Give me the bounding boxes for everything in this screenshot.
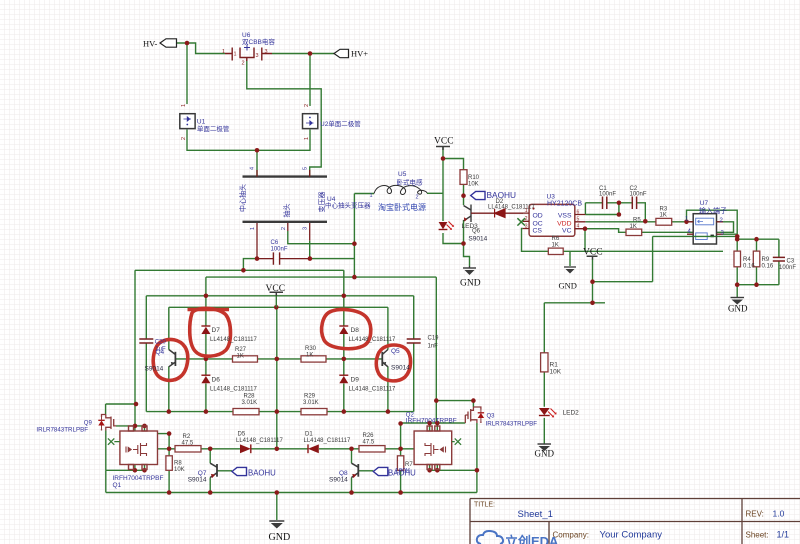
wire U3 CS loop to R6 bbox=[522, 229, 549, 252]
svg-text:Your Company: Your Company bbox=[600, 530, 663, 541]
wire VCC down to LED3 bbox=[442, 147, 444, 222]
LED LED2 bbox=[539, 408, 557, 417]
node C6 left bbox=[255, 256, 260, 261]
node Q3 bottom junction bbox=[475, 468, 480, 473]
pin numbers U3 bbox=[525, 208, 580, 230]
svg-text:立创EDA: 立创EDA bbox=[505, 534, 559, 544]
wire GND tap middle bbox=[569, 251, 571, 266]
resistor R5 bbox=[626, 229, 642, 235]
wire transformer pin1 stub maroon bbox=[256, 222, 258, 259]
wire transformer pin1 to rail1 bbox=[243, 259, 257, 271]
svg-text:R6: R6 bbox=[552, 236, 560, 242]
diode D2 bbox=[495, 209, 505, 218]
svg-text:GND: GND bbox=[535, 449, 555, 459]
svg-text:3.01K: 3.01K bbox=[242, 400, 258, 406]
node R2 left junction bbox=[167, 447, 172, 452]
svg-text:OD: OD bbox=[533, 213, 543, 220]
svg-text:D9: D9 bbox=[351, 377, 360, 384]
svg-text:LL4148_C181117: LL4148_C181117 bbox=[349, 337, 396, 343]
wire Q3 pins bbox=[473, 401, 477, 471]
svg-text:3.01K: 3.01K bbox=[303, 400, 319, 406]
ground GND5 bbox=[269, 521, 284, 529]
wire R4 R9 C3 bottoms bbox=[737, 261, 779, 297]
diode D5 bbox=[240, 444, 251, 453]
svg-text:S9014: S9014 bbox=[329, 476, 348, 483]
node R26 right junction bbox=[398, 447, 403, 452]
node VC junction bbox=[583, 226, 588, 231]
svg-text:GND: GND bbox=[460, 279, 481, 289]
wire transformer pin3 row right bbox=[310, 241, 355, 259]
wire right bridge column down bbox=[435, 277, 437, 423]
LED LED3 bbox=[439, 222, 454, 230]
capacitor C3 bbox=[773, 257, 785, 261]
svg-text:VSS: VSS bbox=[558, 213, 572, 220]
node Q2 bottom pin a bbox=[427, 468, 432, 473]
svg-text:R1: R1 bbox=[550, 362, 559, 369]
wire R6 row long bbox=[563, 250, 723, 252]
wire C20 column bbox=[145, 296, 147, 412]
wire transformer pin2 stub maroon bbox=[287, 222, 289, 231]
svg-text:5: 5 bbox=[303, 167, 309, 170]
wire R27 R30 row bbox=[175, 358, 382, 360]
svg-text:1: 1 bbox=[181, 104, 187, 107]
node center tap corner bbox=[352, 241, 357, 246]
svg-text:HV+: HV+ bbox=[351, 49, 368, 59]
ground GND4 bbox=[538, 444, 552, 451]
svg-text:Q5: Q5 bbox=[391, 348, 400, 355]
svg-text:VCC: VCC bbox=[266, 284, 286, 294]
ground GND2 bbox=[564, 267, 576, 274]
svg-text:R4: R4 bbox=[743, 257, 751, 263]
node R9 top bbox=[754, 237, 759, 242]
node railB D9 col bbox=[342, 409, 347, 414]
node Q2 gate pin a bbox=[427, 421, 432, 426]
svg-text:IRLR7843TRLPBF: IRLR7843TRLPBF bbox=[486, 421, 538, 428]
svg-text:BAOHU: BAOHU bbox=[248, 468, 276, 477]
wire emitter junction to GND bbox=[464, 244, 470, 267]
net flag BAOHU2 bbox=[232, 467, 247, 475]
net symbol VCC2 bbox=[587, 256, 598, 259]
node U7 pin3 junction a bbox=[735, 234, 740, 239]
node VCC2 junction lower bbox=[590, 301, 595, 306]
wire bridge rail4 bbox=[146, 295, 413, 297]
node R9 bottom bbox=[754, 282, 759, 287]
svg-text:TITLE:: TITLE: bbox=[474, 502, 495, 509]
ground GND3 bbox=[731, 298, 745, 305]
svg-text:R5: R5 bbox=[633, 218, 641, 224]
resistor R4 bbox=[734, 251, 741, 267]
node railC left bbox=[434, 398, 439, 403]
node bottom rail R7 bbox=[398, 490, 403, 495]
svg-text:R8: R8 bbox=[174, 461, 182, 467]
pin numbers U7 bbox=[685, 217, 725, 237]
wire Q7 base bbox=[217, 470, 232, 472]
resistor R30 bbox=[301, 356, 326, 362]
resistor R27 bbox=[233, 356, 258, 362]
node R7 col top bbox=[398, 421, 403, 426]
svg-text:10K: 10K bbox=[468, 182, 479, 188]
svg-text:3: 3 bbox=[525, 223, 528, 229]
svg-text:LL4148_C181117: LL4148_C181117 bbox=[210, 387, 257, 393]
resistor R7 bbox=[397, 456, 403, 471]
logo cloud bbox=[477, 531, 503, 544]
node bottom rail Q8 bbox=[349, 490, 354, 495]
annotation stroke D7 top bbox=[188, 308, 230, 312]
wire transformer pin2 center tap bbox=[288, 231, 355, 244]
wire R1 row bbox=[544, 303, 605, 444]
node railB D6 col bbox=[204, 409, 209, 414]
wire center column bbox=[276, 307, 278, 449]
wire U7 pin3 to junction bbox=[723, 233, 737, 235]
capacitor C1 bbox=[603, 197, 607, 210]
wire inductor column bbox=[354, 194, 374, 278]
svg-text:U3: U3 bbox=[547, 194, 556, 201]
svg-text:R30: R30 bbox=[305, 346, 317, 352]
node rail5 VCC stem bbox=[274, 305, 279, 310]
diode D6 bbox=[201, 375, 210, 383]
wire bridge rail2 bbox=[206, 276, 436, 278]
node bottom diode wire junction bbox=[255, 148, 260, 153]
node Q1 bottom pin a bbox=[133, 468, 138, 473]
node C6 right bbox=[308, 256, 313, 261]
svg-text:R27: R27 bbox=[235, 347, 247, 353]
annotation circle D8 bbox=[322, 309, 371, 348]
svg-text:2: 2 bbox=[304, 104, 310, 107]
wire LED3 bottom to emitter junction bbox=[443, 220, 464, 244]
svg-text:U7: U7 bbox=[700, 200, 709, 207]
wire crossing U7 box bbox=[693, 235, 716, 237]
wire U6 pin2 down to transformer pin5 bbox=[247, 60, 321, 177]
svg-text:C19: C19 bbox=[428, 336, 440, 342]
svg-text:47.5: 47.5 bbox=[182, 440, 194, 446]
resistor R6 bbox=[548, 248, 563, 254]
svg-text:6: 6 bbox=[577, 209, 580, 215]
resistor R1 bbox=[541, 353, 548, 372]
resistor R26 bbox=[359, 446, 385, 452]
net flag BAOHU3 bbox=[373, 467, 388, 475]
svg-text:D1: D1 bbox=[305, 432, 313, 438]
diode D7 bbox=[201, 326, 210, 334]
svg-text:GND: GND bbox=[559, 281, 577, 291]
svg-text:1: 1 bbox=[304, 137, 310, 140]
transformer U4 bbox=[243, 170, 328, 222]
wire Q1 top pin stubs bbox=[135, 426, 145, 431]
node bottom rail Q7 bbox=[208, 490, 213, 495]
wire Q2 top pin stubs bbox=[430, 423, 438, 431]
node railB Q4 col bbox=[167, 409, 172, 414]
svg-text:S9014: S9014 bbox=[468, 236, 487, 243]
node Q1 right pin top bbox=[167, 431, 172, 436]
svg-text:R10: R10 bbox=[468, 175, 480, 181]
node VSS junction bbox=[617, 212, 622, 217]
svg-text:C6: C6 bbox=[271, 240, 279, 246]
wire U1 pin2 to U2 pin1 bottom bbox=[187, 129, 310, 150]
node Q8 collector junction bbox=[349, 447, 354, 452]
svg-text:1: 1 bbox=[525, 208, 528, 214]
mosfet module Q1 bbox=[120, 426, 158, 470]
transistor Q6 bbox=[464, 205, 476, 223]
svg-text:2: 2 bbox=[525, 216, 528, 222]
wire GND stem bottom bbox=[276, 493, 278, 521]
mosfet Q9 bbox=[98, 415, 116, 431]
port HV- bbox=[160, 39, 177, 47]
annotation circle D7 bbox=[190, 308, 231, 356]
svg-text:R29: R29 bbox=[304, 393, 316, 399]
diode D1 bbox=[308, 444, 319, 453]
node HV+ junction bbox=[308, 51, 313, 56]
svg-text:2: 2 bbox=[281, 227, 287, 230]
svg-text:HV-: HV- bbox=[143, 39, 157, 49]
transistor Q8 bbox=[352, 463, 359, 478]
wire Q4 collector emitter column bbox=[168, 307, 170, 411]
pin names U3 bbox=[533, 213, 572, 235]
svg-text:C3: C3 bbox=[787, 259, 795, 265]
svg-text:VCC: VCC bbox=[434, 137, 454, 147]
wire HV- to junction bbox=[176, 43, 225, 104]
svg-text:LL4148_C181117: LL4148_C181117 bbox=[210, 337, 257, 343]
svg-text:1K: 1K bbox=[237, 353, 244, 359]
svg-text:VC: VC bbox=[562, 228, 572, 235]
svg-text:Q3: Q3 bbox=[487, 414, 496, 420]
node R4 bottom bbox=[735, 282, 740, 287]
svg-text:U5: U5 bbox=[398, 171, 407, 178]
wire VC junction down to R6 row bbox=[584, 229, 586, 252]
node rail4 D8 col bbox=[342, 294, 347, 299]
node R27 R30 mid junction bbox=[275, 357, 280, 362]
wire VCC junction to R10 bbox=[443, 159, 464, 206]
wire Q1 bottom pins row bbox=[106, 465, 145, 493]
wire R28 R29 row bbox=[146, 411, 413, 413]
svg-text:10K: 10K bbox=[174, 467, 185, 473]
svg-text:单面二极管: 单面二极管 bbox=[197, 124, 230, 133]
svg-text:100nF: 100nF bbox=[779, 265, 796, 271]
svg-text:2: 2 bbox=[416, 195, 419, 201]
node rail2 inductor col bbox=[352, 275, 357, 280]
net symbol VCC1 bbox=[436, 147, 450, 151]
svg-text:R26: R26 bbox=[363, 433, 375, 439]
wire Q9 gate row bbox=[116, 425, 145, 427]
wire U3 VDD row to R3 to U7 pin1 bbox=[585, 221, 693, 223]
capacitor C2 bbox=[632, 197, 636, 210]
IC U3 bbox=[517, 204, 585, 236]
resistor R10 bbox=[460, 170, 467, 185]
node R30 right junction bbox=[342, 357, 347, 362]
svg-text:VCC: VCC bbox=[583, 248, 603, 258]
svg-text:Q6: Q6 bbox=[472, 229, 481, 235]
svg-text:100nF: 100nF bbox=[630, 191, 647, 197]
svg-text:R2: R2 bbox=[183, 434, 191, 440]
inductor U5 bbox=[374, 185, 427, 194]
node Q1 gate pin a bbox=[133, 424, 138, 429]
svg-text:D6: D6 bbox=[212, 377, 221, 384]
node bottom rail R8 bbox=[167, 490, 172, 495]
wire rail C right bbox=[436, 400, 473, 402]
capacitor C6 bbox=[273, 252, 279, 264]
wire inductor pin2 to VCC column bbox=[427, 192, 443, 194]
svg-text:输入端子: 输入端子 bbox=[699, 206, 727, 215]
wire Q7 collector emitter bbox=[209, 449, 211, 493]
resistor R3 bbox=[656, 218, 672, 225]
svg-text:5: 5 bbox=[577, 217, 580, 223]
svg-text:1.0: 1.0 bbox=[773, 509, 785, 519]
node Q2 gate pin b bbox=[435, 421, 440, 426]
svg-text:OC: OC bbox=[533, 220, 543, 227]
node U7 pin3 junction b bbox=[735, 237, 740, 242]
wire Q2 gate row bbox=[401, 422, 466, 424]
svg-text:1: 1 bbox=[250, 227, 256, 230]
svg-text:HY2120CB: HY2120CB bbox=[547, 201, 582, 208]
svg-text:D5: D5 bbox=[238, 432, 246, 438]
svg-text:Q1: Q1 bbox=[113, 482, 122, 489]
wire D7 D6 column bbox=[205, 277, 207, 412]
ground GND1 bbox=[463, 266, 476, 275]
diode D9 bbox=[339, 375, 348, 383]
wire R2 D5 D1 R26 row bbox=[169, 448, 414, 450]
svg-text:1nF: 1nF bbox=[428, 344, 439, 350]
net symbol VCC3 bbox=[270, 292, 284, 307]
svg-text:抽头: 抽头 bbox=[282, 204, 291, 218]
annotation circle Q5 bbox=[376, 345, 410, 381]
svg-text:CS: CS bbox=[533, 228, 543, 235]
node Q1 bottom pin b bbox=[142, 468, 147, 473]
resistor R28 bbox=[233, 409, 259, 415]
mosfet module Q2 bbox=[414, 426, 452, 470]
svg-text:0.16: 0.16 bbox=[762, 264, 774, 270]
wire U3 VC to R5 to U7 pin2 bbox=[585, 222, 734, 233]
node emitter junction bbox=[461, 241, 466, 246]
svg-text:LED2: LED2 bbox=[563, 410, 580, 417]
wire transformer pin3 stub maroon bbox=[309, 222, 311, 241]
svg-text:LL4148_C181117: LL4148_C181117 bbox=[349, 387, 396, 393]
no-connect X Q1 bbox=[108, 438, 120, 444]
connector U7 bbox=[687, 214, 723, 244]
svg-text:1K: 1K bbox=[552, 243, 559, 249]
wire bridge rail1 bbox=[135, 269, 344, 271]
svg-text:IRLR7843TRLPBF: IRLR7843TRLPBF bbox=[36, 427, 88, 434]
svg-text:R9: R9 bbox=[762, 257, 770, 263]
pin numbers U6 bbox=[222, 49, 268, 67]
svg-text:0.16: 0.16 bbox=[743, 264, 755, 270]
node railC Q3 top bbox=[471, 398, 476, 403]
diode module U2 bbox=[303, 114, 318, 129]
capacitor U6 bbox=[225, 45, 272, 62]
wire Q8 base bbox=[358, 470, 373, 472]
resistor R29 bbox=[301, 409, 327, 415]
annotation circle Q4 bbox=[153, 339, 187, 380]
svg-text:1K: 1K bbox=[630, 224, 637, 230]
wire C6 row bbox=[257, 258, 310, 260]
wire U3 VSS row bbox=[585, 203, 619, 215]
svg-text:双CBB电容: 双CBB电容 bbox=[242, 37, 275, 46]
no-connect X Q2 bbox=[452, 438, 461, 444]
svg-text:GND: GND bbox=[269, 532, 291, 543]
node Q2 bottom pin b bbox=[435, 468, 440, 473]
svg-text:卧式电感: 卧式电感 bbox=[397, 178, 424, 187]
svg-text:Q4: Q4 bbox=[156, 349, 165, 356]
wire U6 pin3 to HV+ bbox=[272, 54, 334, 107]
svg-text:中心抽头: 中心抽头 bbox=[238, 184, 247, 212]
svg-text:LL4148_C181117: LL4148_C181117 bbox=[304, 438, 351, 444]
svg-text:1: 1 bbox=[222, 49, 225, 55]
svg-text:4: 4 bbox=[577, 224, 580, 230]
svg-text:1K: 1K bbox=[660, 213, 667, 219]
wire Q8 collector emitter bbox=[351, 449, 353, 493]
wire Q6 base to D2 to U3 OD bbox=[475, 212, 524, 214]
wire C19 column bbox=[413, 296, 415, 412]
node R3 R5 junction bbox=[643, 219, 648, 224]
mosfet Q3 bbox=[465, 407, 484, 423]
svg-text:Sheet_1: Sheet_1 bbox=[518, 509, 553, 520]
transistor Q4 bbox=[169, 350, 176, 367]
svg-text:D7: D7 bbox=[212, 327, 221, 334]
svg-text:D8: D8 bbox=[351, 327, 360, 334]
svg-text:IRFH7004TRPBF: IRFH7004TRPBF bbox=[406, 418, 457, 425]
svg-text:S9014: S9014 bbox=[145, 366, 164, 373]
wire C1 C2 row bbox=[585, 203, 645, 222]
node Q7 collector junction bbox=[208, 447, 213, 452]
svg-text:S9014: S9014 bbox=[188, 476, 207, 483]
svg-text:4: 4 bbox=[250, 167, 256, 170]
wire Q5 column bbox=[387, 307, 389, 411]
node rail4 D7 col bbox=[204, 294, 209, 299]
svg-text:2: 2 bbox=[181, 137, 187, 140]
svg-text:LL4148_C181117: LL4148_C181117 bbox=[488, 205, 535, 211]
node VCC2 junction upper bbox=[590, 279, 595, 284]
diode module U1 bbox=[180, 114, 195, 129]
svg-text:10K: 10K bbox=[550, 369, 562, 376]
svg-text:47.5: 47.5 bbox=[363, 440, 375, 446]
node VCC1 junction bbox=[441, 156, 446, 161]
port HV+ bbox=[334, 49, 349, 57]
resistor R9 bbox=[753, 251, 760, 267]
node bottom rail GND bbox=[275, 490, 280, 495]
svg-text:LL4148_C181117: LL4148_C181117 bbox=[236, 438, 283, 444]
node rail1 tap bbox=[241, 268, 246, 273]
wire VCC2 junction right to U7 pin4 column bbox=[593, 236, 738, 281]
svg-text:3: 3 bbox=[256, 53, 259, 59]
diode D8 bbox=[339, 326, 348, 334]
svg-text:BAOHU: BAOHU bbox=[388, 468, 416, 477]
wire Q9 pins bbox=[105, 404, 107, 470]
svg-text:100nF: 100nF bbox=[599, 191, 616, 197]
wire rail A left bbox=[106, 403, 136, 405]
node railA gate col bbox=[134, 402, 139, 407]
node railB center col bbox=[275, 409, 280, 414]
svg-text:1K: 1K bbox=[306, 352, 313, 358]
svg-text:3: 3 bbox=[303, 227, 309, 230]
transistor Q7 bbox=[210, 463, 217, 478]
svg-text:3: 3 bbox=[265, 49, 268, 55]
wire Q2 bottom pins row bbox=[430, 465, 477, 493]
svg-text:U1: U1 bbox=[197, 119, 206, 126]
capacitor C20 bbox=[139, 339, 153, 343]
wire U7 pin1 loop over to right column bbox=[687, 210, 738, 251]
svg-text:U6: U6 bbox=[242, 32, 251, 39]
wire R4 top row bbox=[737, 239, 779, 257]
resistor R8 bbox=[166, 456, 172, 471]
svg-text:U2单面二极管: U2单面二极管 bbox=[320, 119, 361, 128]
svg-text:C20: C20 bbox=[155, 339, 167, 345]
svg-text:VDD: VDD bbox=[557, 220, 571, 227]
wire VCC2 stem down bbox=[592, 259, 594, 303]
svg-text:GND: GND bbox=[728, 304, 748, 314]
transistor Q5 bbox=[382, 350, 388, 367]
node R27 left junction bbox=[204, 357, 209, 362]
svg-text:REV:: REV: bbox=[746, 510, 764, 519]
svg-text:中心抽头变压器: 中心抽头变压器 bbox=[325, 201, 371, 210]
svg-text:S9014: S9014 bbox=[391, 364, 410, 371]
wire D8 D9 column bbox=[343, 270, 345, 411]
